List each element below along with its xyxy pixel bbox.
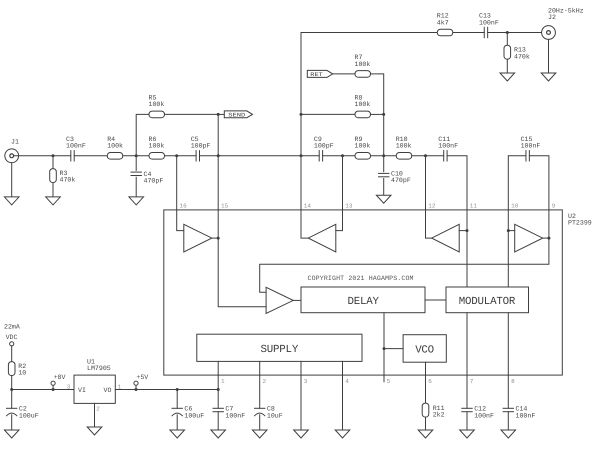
op-amp buffer A — [184, 224, 212, 252]
svg-text:RET: RET — [310, 71, 323, 78]
pin number 10 — [511, 203, 519, 210]
svg-text:100k: 100k — [396, 143, 412, 150]
node pin16 junction — [175, 154, 178, 157]
label R10 — [396, 136, 408, 143]
resistor R6 — [149, 153, 165, 160]
wire pin12 lead — [425, 156, 427, 210]
svg-text:100k: 100k — [107, 143, 123, 150]
capacitor C9 — [319, 151, 322, 161]
label C5 value — [191, 143, 211, 150]
svg-text:13: 13 — [345, 203, 353, 210]
svg-text:100nF: 100nF — [516, 412, 536, 419]
wire pin8 to C14 — [507, 375, 509, 408]
wire VDC to R2 — [11, 346, 13, 362]
ground under J1 — [4, 197, 19, 205]
wire C5 to C9 — [200, 155, 320, 157]
label R5 — [149, 95, 157, 102]
label C13 value — [479, 19, 499, 26]
wire pin15 internal column — [218, 210, 266, 307]
node rail pin1 junction — [217, 388, 220, 391]
wire SEND node down to main — [217, 114, 219, 155]
wire pin7 column below MODULATOR — [466, 313, 468, 375]
block VCO — [403, 335, 446, 363]
wire C10 to ground — [383, 179, 385, 196]
svg-text:+5V: +5V — [136, 374, 148, 381]
capacitor C13 — [484, 27, 487, 37]
wire VCO bottom to pin6 — [425, 362, 427, 375]
ground under C10 — [376, 195, 391, 203]
ground under U1 — [87, 427, 102, 435]
resistor R11 — [422, 403, 429, 417]
capacitor C12 — [462, 408, 472, 411]
label R12 — [437, 13, 449, 20]
ground under R3 — [46, 197, 61, 205]
svg-text:10: 10 — [511, 203, 519, 210]
node rail corner junction — [10, 388, 13, 391]
label U2 — [568, 213, 576, 220]
resistor R13 — [504, 45, 511, 59]
resistor R10 — [396, 153, 412, 160]
label C9 value — [314, 143, 334, 150]
wire C15 to pin9 — [529, 156, 549, 210]
wire R4 to R6 — [123, 155, 149, 157]
pin number U1-3 — [67, 383, 71, 390]
pin number 4 — [345, 378, 349, 385]
svg-text:100pF: 100pF — [191, 143, 211, 150]
svg-text:100k: 100k — [355, 61, 371, 68]
ground under C8 — [252, 430, 267, 438]
wire C10 top lead — [383, 156, 385, 172]
wire pin13 to buffer B input — [336, 210, 343, 231]
label U1 part — [87, 365, 111, 372]
label C10 value — [391, 177, 411, 184]
label J2 — [548, 14, 556, 21]
wire pin7 to C12 — [466, 375, 468, 408]
pin number 5 — [387, 378, 391, 385]
svg-text:LM7905: LM7905 — [87, 365, 111, 372]
wire pin2 to C8 — [259, 375, 261, 408]
net tag SEND — [224, 111, 252, 119]
node C6 junction — [176, 388, 179, 391]
label R7 value — [355, 61, 371, 68]
wire J2 to ground — [548, 39, 550, 73]
resistor R2 — [8, 362, 15, 376]
label C4 — [144, 171, 152, 178]
resistor R3 — [50, 169, 57, 183]
op-amp buffer C — [432, 224, 460, 252]
ground under pin3 — [294, 430, 309, 438]
capacitor C3 — [71, 151, 74, 161]
wire R5 to SEND node — [165, 113, 219, 115]
resistor R4 — [107, 153, 123, 160]
label J1 — [11, 139, 19, 146]
wire DELAY bottom to pin5 — [383, 313, 385, 375]
wire pin4 to ground — [342, 375, 344, 430]
capacitor C2 — [7, 408, 17, 416]
label R6 — [149, 136, 157, 143]
svg-text:100nF: 100nF — [521, 143, 541, 150]
node +5V junction — [135, 388, 138, 391]
label C15 — [521, 136, 533, 143]
wire R13 top lead — [506, 33, 508, 46]
svg-text:9: 9 — [552, 203, 556, 210]
label U1 VO — [104, 387, 112, 394]
wire pin10 to C15 — [508, 156, 526, 210]
wire pin10 internal column — [507, 210, 509, 287]
ground under pin4 — [335, 430, 350, 438]
label R12 value — [437, 19, 449, 26]
capacitor C14 — [503, 408, 513, 411]
label R11 — [433, 405, 445, 412]
ground under C7 — [211, 430, 226, 438]
label J2 frequency — [548, 8, 584, 15]
svg-text:15: 15 — [221, 203, 229, 210]
connector J1 — [5, 149, 19, 163]
wire buffer E output — [293, 299, 301, 301]
label R4 — [107, 136, 115, 143]
label C8 — [267, 406, 275, 413]
wire R10 to C11 — [412, 155, 444, 157]
wire pin8 column below MODULATOR — [507, 313, 509, 375]
node buffer D input junction — [507, 229, 510, 232]
svg-text:470pF: 470pF — [144, 178, 164, 185]
label U1 — [87, 359, 95, 366]
pin number 11 — [470, 203, 478, 210]
svg-text:470k: 470k — [514, 53, 530, 60]
svg-text:470pF: 470pF — [391, 177, 411, 184]
pin number 8 — [511, 378, 515, 385]
svg-text:10: 10 — [18, 370, 26, 377]
label C13 — [479, 13, 491, 20]
wire C4 to ground — [135, 177, 137, 197]
ground under C14 — [501, 430, 516, 438]
label +8V — [54, 374, 66, 381]
label C2 — [19, 406, 27, 413]
capacitor C7 — [213, 408, 223, 411]
wire C4 top lead — [135, 156, 137, 171]
label C10 — [391, 170, 403, 177]
svg-text:J2: J2 — [548, 14, 556, 21]
wire +5V stub — [135, 385, 137, 389]
wire R7 to feedback column — [371, 74, 384, 156]
wire C2 to ground — [11, 415, 13, 430]
wire pin9 internal column — [548, 210, 550, 238]
wire R8 to column — [371, 113, 384, 115]
wire buffer D input stub — [508, 230, 514, 232]
wire RET to R7 — [333, 73, 355, 75]
wire C3 to R4 — [74, 155, 107, 157]
svg-text:22mA: 22mA — [4, 323, 20, 330]
wire buffer C input stub — [459, 230, 467, 232]
pin number 13 — [345, 203, 353, 210]
pin number U1-1 — [118, 383, 122, 390]
op-amp buffer E — [266, 287, 293, 313]
block MODULATOR — [446, 287, 529, 313]
terminal +5V — [134, 381, 138, 385]
wire R3 bottom lead — [52, 183, 54, 197]
label C14 value — [516, 412, 536, 419]
svg-text:100k: 100k — [355, 143, 371, 150]
pin number 9 — [552, 203, 556, 210]
label R5 value — [149, 101, 165, 108]
svg-text:VI: VI — [78, 387, 86, 394]
label R8 value — [355, 101, 371, 108]
node C10 junction — [382, 154, 385, 157]
ground under C2 — [4, 430, 19, 438]
wire pin13 lead — [342, 156, 344, 210]
label R8 — [355, 95, 363, 102]
terminal VDC — [10, 342, 14, 346]
svg-text:DELAY: DELAY — [348, 296, 380, 308]
label R3 value — [60, 177, 76, 184]
node buffer C input junction — [466, 229, 469, 232]
svg-text:100pF: 100pF — [314, 143, 334, 150]
capacitor C10 — [379, 173, 389, 176]
svg-text:14: 14 — [304, 203, 312, 210]
wire C11 to pin11 — [447, 156, 467, 210]
svg-text:8: 8 — [511, 378, 515, 385]
svg-text:6: 6 — [428, 378, 432, 385]
label U2 part — [568, 220, 592, 227]
wire SUPPLY pin4 — [342, 361, 344, 375]
pin number 3 — [304, 378, 308, 385]
ground under R13 — [500, 73, 515, 81]
wire DELAY to MODULATOR — [425, 299, 446, 301]
label C6 — [184, 406, 192, 413]
wire R6 to C5 — [165, 155, 197, 157]
ground under R11 — [418, 430, 433, 438]
svg-text:100uF: 100uF — [184, 412, 204, 419]
svg-text:3: 3 — [304, 378, 308, 385]
label C12 — [474, 406, 486, 413]
label R10 value — [396, 143, 412, 150]
capacitor C5 — [196, 151, 199, 161]
resistor R12 — [437, 29, 453, 36]
label C7 — [225, 406, 233, 413]
svg-text:1: 1 — [221, 378, 225, 385]
pin number 15 — [221, 203, 229, 210]
resistor R9 — [355, 153, 371, 160]
regulator U1 — [74, 375, 115, 403]
node junction C4 — [135, 154, 138, 157]
label C4 value — [144, 178, 164, 185]
label C6 value — [184, 412, 204, 419]
svg-text:10uF: 10uF — [267, 412, 283, 419]
label C9 — [314, 136, 322, 143]
label C14 — [516, 406, 528, 413]
wire R3 top lead — [52, 156, 54, 169]
wire C2 top lead — [11, 390, 13, 409]
capacitor C6 — [172, 408, 182, 416]
svg-text:7: 7 — [470, 378, 474, 385]
wire R9 to R10 — [371, 155, 397, 157]
wire C14 to ground — [507, 412, 509, 430]
svg-text:COPYRIGHT 2021 HAGAMPS.COM: COPYRIGHT 2021 HAGAMPS.COM — [308, 275, 414, 282]
svg-text:SUPPLY: SUPPLY — [261, 344, 299, 356]
wire SEND stub — [218, 113, 224, 115]
pin number 14 — [304, 203, 312, 210]
svg-text:100uF: 100uF — [19, 412, 39, 419]
wire SUPPLY pin1 — [217, 361, 219, 375]
wire top row — [301, 32, 437, 34]
wire R2 to rail — [11, 376, 13, 390]
wire R12 to C13 — [453, 32, 484, 34]
node +8V junction — [52, 388, 55, 391]
resistor R8 — [355, 111, 371, 118]
wire pin12 to buffer C output — [426, 210, 432, 238]
svg-text:100nF: 100nF — [474, 412, 494, 419]
node junction R3 — [52, 154, 55, 157]
pin number 7 — [470, 378, 474, 385]
wire pin6 to R11 — [425, 375, 427, 403]
wire C7 to ground — [217, 412, 219, 430]
ground under C6 — [170, 430, 185, 438]
svg-text:16: 16 — [180, 203, 188, 210]
wire +8V stub — [52, 385, 54, 389]
node R8 right junction — [382, 113, 385, 116]
svg-text:MODULATOR: MODULATOR — [459, 296, 516, 308]
wire VCO input stub — [384, 348, 403, 350]
svg-text:100nF: 100nF — [438, 143, 458, 150]
svg-text:+8V: +8V — [54, 374, 66, 381]
node R13 junction — [506, 31, 509, 34]
label C2 value — [19, 412, 39, 419]
pin number U1-2 — [96, 406, 100, 413]
wire pin14 lead — [300, 156, 302, 210]
node pin14 junction — [300, 154, 303, 157]
node buffer A output junction — [217, 237, 220, 240]
wire pin16 to buffer A input — [177, 210, 184, 231]
pin number 12 — [428, 203, 436, 210]
ground under J2 — [541, 73, 556, 81]
label C11 — [438, 136, 450, 143]
svg-text:100k: 100k — [149, 143, 165, 150]
svg-text:VCO: VCO — [415, 345, 434, 357]
capacitor C4 — [131, 172, 141, 175]
label R3 — [60, 170, 68, 177]
label C12 value — [474, 412, 494, 419]
wire pin16 lead — [176, 156, 178, 210]
svg-text:470k: 470k — [60, 177, 76, 184]
label R9 value — [355, 143, 371, 150]
ground under C4 — [129, 197, 144, 205]
svg-text:5: 5 — [387, 378, 391, 385]
wire SUPPLY pin2 — [259, 361, 261, 375]
wire SUPPLY pin3 — [300, 361, 302, 375]
svg-text:2k2: 2k2 — [433, 412, 445, 419]
wire R11 to ground — [425, 417, 427, 430]
wire J1 to C3 — [14, 155, 71, 157]
node VCO junction — [383, 347, 386, 350]
label C11 value — [438, 143, 458, 150]
label C3 value — [66, 143, 86, 150]
svg-text:VDC: VDC — [6, 334, 18, 341]
svg-text:SEND: SEND — [228, 111, 246, 118]
wire pin14 to buffer B output — [301, 210, 308, 238]
ground under C12 — [460, 430, 475, 438]
svg-text:12: 12 — [428, 203, 436, 210]
wire C9 to R9 — [323, 155, 355, 157]
pin number 1 — [221, 378, 225, 385]
op-amp buffer D — [515, 224, 543, 252]
connector J2 — [542, 26, 556, 40]
copyright text — [308, 275, 414, 282]
svg-text:3: 3 — [67, 383, 71, 390]
label U1 VI — [78, 387, 86, 394]
svg-text:VO: VO — [104, 387, 112, 394]
label supply current — [4, 323, 20, 330]
label R2 — [18, 363, 26, 370]
label VDC — [6, 334, 18, 341]
op-amp U2 outline — [164, 210, 563, 375]
wire feedback path — [260, 238, 549, 292]
pin number 16 — [180, 203, 188, 210]
resistor R5 — [149, 111, 165, 118]
pin number 6 — [428, 378, 432, 385]
svg-text:J1: J1 — [11, 139, 19, 146]
label C5 — [191, 136, 199, 143]
wire pin1 to C7 — [217, 375, 219, 408]
node SEND junction — [217, 113, 220, 116]
svg-text:100nF: 100nF — [225, 412, 245, 419]
label R2 value — [18, 370, 26, 377]
label R13 value — [514, 53, 530, 60]
label R4 value — [107, 143, 123, 150]
pin number 2 — [263, 378, 267, 385]
node pin12 junction — [424, 154, 427, 157]
label R6 value — [149, 143, 165, 150]
wire buffer A output — [212, 237, 218, 239]
capacitor C15 — [526, 151, 529, 161]
node pin13 junction — [341, 154, 344, 157]
net tag RET — [307, 70, 332, 78]
svg-text:100k: 100k — [149, 101, 165, 108]
wire left column pin14 — [300, 33, 302, 156]
label C7 value — [225, 412, 245, 419]
wire C13 to J2 — [488, 32, 542, 34]
svg-text:100k: 100k — [355, 101, 371, 108]
wire U1 pin2 to ground — [94, 403, 96, 427]
op-amp buffer B — [308, 224, 336, 252]
wire C6 top lead — [176, 390, 178, 409]
wire pin11 internal column — [466, 210, 468, 287]
capacitor C11 — [444, 151, 447, 161]
block DELAY — [301, 287, 425, 313]
label R7 — [355, 54, 363, 61]
svg-text:4k7: 4k7 — [437, 19, 449, 26]
node pin15 junction — [217, 154, 220, 157]
svg-text:100nF: 100nF — [66, 143, 86, 150]
label R11 value — [433, 412, 445, 419]
wire R13 to ground — [506, 59, 508, 73]
svg-text:PT2399: PT2399 — [568, 220, 592, 227]
wire rail left — [12, 389, 74, 391]
capacitor C8 — [255, 408, 265, 416]
wire pin5 stub — [383, 375, 385, 382]
wire R8 row — [301, 113, 355, 115]
label R13 — [514, 47, 526, 54]
node buffer D output junction — [547, 237, 550, 240]
wire rail right — [115, 389, 218, 391]
label +5V — [136, 374, 148, 381]
label C3 — [66, 136, 74, 143]
label R9 — [355, 136, 363, 143]
wire C12 to ground — [466, 412, 468, 430]
svg-text:11: 11 — [470, 203, 478, 210]
wire J1 to ground — [11, 163, 13, 197]
wire buffer D output — [543, 237, 549, 239]
wire pin3 to ground — [300, 375, 302, 430]
